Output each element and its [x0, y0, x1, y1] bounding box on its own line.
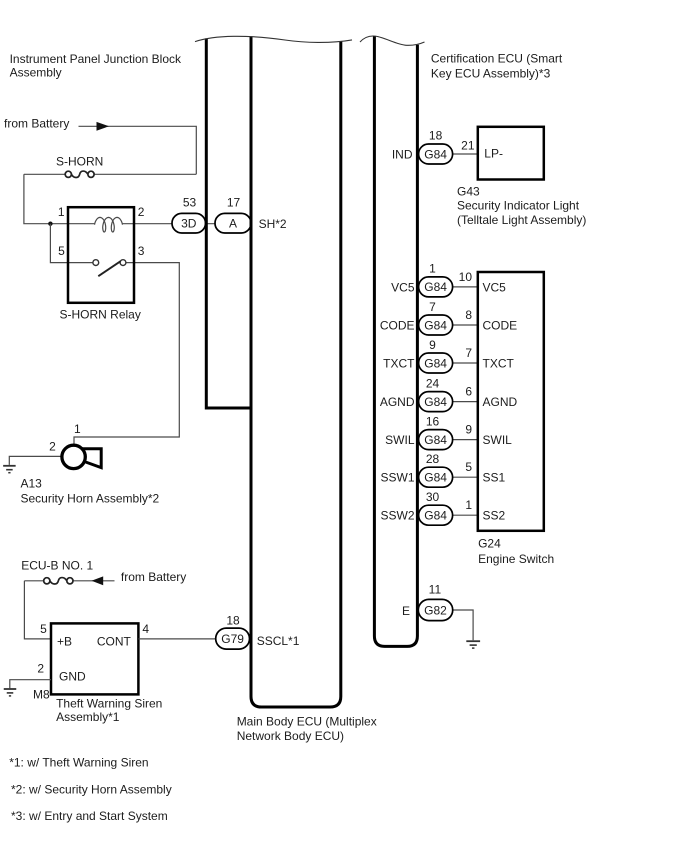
svg-text:*2: w/ Security Horn Assembly: *2: w/ Security Horn Assembly [11, 782, 172, 796]
wire relay pin 3 to horn pin 1 [74, 263, 179, 444]
svg-text:SS1: SS1 [483, 471, 506, 485]
engine switch box G24 [478, 272, 544, 531]
svg-text:SWIL: SWIL [385, 433, 415, 447]
relay S-HORN Relay box [68, 207, 134, 303]
ground M8 [4, 688, 17, 690]
svg-text:7: 7 [429, 300, 436, 314]
wire CONT to G79 [138, 638, 215, 640]
wire junction to relay pin 5 [50, 224, 93, 263]
ground A13 [3, 465, 16, 467]
horn trumpet [84, 449, 102, 468]
svg-text:M8: M8 [33, 688, 50, 702]
Certification ECU outline [374, 36, 417, 646]
svg-text:G82: G82 [424, 603, 447, 617]
svg-text:9: 9 [465, 423, 472, 437]
svg-text:3: 3 [138, 244, 145, 258]
svg-text:CONT: CONT [97, 635, 132, 649]
svg-text:*3: w/ Entry and Start System: *3: w/ Entry and Start System [11, 809, 168, 823]
svg-text:7: 7 [465, 346, 472, 360]
svg-text:G84: G84 [424, 471, 447, 485]
svg-text:G84: G84 [424, 433, 447, 447]
svg-text:S-HORN Relay: S-HORN Relay [60, 307, 141, 321]
svg-text:G84: G84 [424, 356, 447, 370]
wire battery to fuse [73, 580, 115, 582]
horn circle A13 [62, 445, 85, 468]
svg-text:AGND: AGND [483, 395, 518, 409]
wire horn pin 2 to ground [9, 456, 60, 465]
svg-text:CODE: CODE [483, 319, 518, 333]
svg-text:28: 28 [426, 452, 440, 466]
arrow from battery [97, 122, 110, 131]
svg-text:CODE: CODE [380, 319, 415, 333]
svg-text:24: 24 [426, 376, 440, 390]
svg-text:G84: G84 [424, 509, 447, 523]
svg-text:VC5: VC5 [483, 280, 507, 294]
svg-text:ECU-B NO. 1: ECU-B NO. 1 [21, 559, 93, 573]
svg-text:A: A [229, 217, 237, 231]
svg-text:+B: +B [57, 635, 72, 649]
connector G84 pin 18 IND [419, 144, 453, 164]
fuse S-HORN wire [24, 173, 65, 175]
arrow from battery (bottom) [92, 576, 104, 585]
wire G82 to ground [453, 610, 473, 640]
svg-text:8: 8 [465, 308, 472, 322]
svg-text:E: E [402, 604, 410, 618]
svg-text:1: 1 [465, 498, 472, 512]
svg-text:GND: GND [59, 670, 86, 684]
svg-text:SWIL: SWIL [483, 433, 513, 447]
svg-text:Engine Switch: Engine Switch [478, 552, 554, 566]
svg-text:Theft Warning Siren: Theft Warning Siren [56, 697, 162, 711]
wire fuse to siren +B [24, 581, 51, 639]
indicator light box G43 [478, 127, 544, 180]
Main Body ECU wavy top [195, 36, 352, 42]
svg-text:6: 6 [465, 385, 472, 399]
svg-text:from Battery: from Battery [4, 116, 69, 130]
Certification ECU wavy top [360, 36, 425, 45]
svg-text:Main Body ECU (Multiplex: Main Body ECU (Multiplex [237, 714, 377, 728]
svg-text:11: 11 [429, 583, 442, 597]
svg-text:1: 1 [429, 262, 436, 276]
svg-text:Assembly: Assembly [10, 65, 62, 79]
theft warning siren box M8 [51, 623, 138, 694]
svg-text:SSW2: SSW2 [380, 509, 414, 523]
svg-text:18: 18 [429, 128, 443, 142]
svg-text:G84: G84 [424, 280, 447, 294]
wire GND to ground [10, 680, 51, 689]
svg-text:53: 53 [183, 195, 197, 209]
svg-text:G84: G84 [424, 147, 447, 161]
svg-text:30: 30 [426, 490, 440, 504]
Main Body ECU outline [251, 36, 341, 707]
svg-text:2: 2 [37, 661, 44, 675]
junction dot [48, 222, 52, 226]
svg-text:10: 10 [459, 270, 473, 284]
svg-text:SH*2: SH*2 [259, 217, 287, 231]
relay switch contacts [93, 260, 99, 266]
svg-text:2: 2 [49, 439, 56, 453]
svg-text:Key ECU Assembly)*3: Key ECU Assembly)*3 [431, 67, 551, 81]
svg-text:Assembly*1: Assembly*1 [56, 710, 120, 724]
svg-text:G84: G84 [424, 318, 447, 332]
relay switch blade [98, 261, 120, 276]
svg-text:TXCT: TXCT [483, 357, 515, 371]
svg-text:G43: G43 [457, 185, 480, 199]
svg-text:TXCT: TXCT [383, 357, 415, 371]
svg-text:LP-: LP- [484, 147, 503, 161]
Instrument Panel Junction Block outline [206, 38, 251, 408]
svg-text:1: 1 [58, 205, 65, 219]
svg-text:Certification ECU (Smart: Certification ECU (Smart [431, 51, 563, 65]
svg-text:5: 5 [40, 622, 47, 636]
svg-text:1: 1 [74, 422, 81, 436]
svg-text:2: 2 [138, 205, 145, 219]
svg-text:G24: G24 [478, 537, 501, 551]
svg-text:SS2: SS2 [483, 509, 506, 523]
wire fuse to relay pin 1 [24, 174, 95, 223]
svg-text:(Telltale Light Assembly): (Telltale Light Assembly) [457, 213, 586, 227]
svg-text:SSW1: SSW1 [380, 471, 414, 485]
svg-text:Security Horn Assembly*2: Security Horn Assembly*2 [21, 492, 160, 506]
svg-text:S-HORN: S-HORN [56, 155, 103, 169]
svg-text:Network Body ECU): Network Body ECU) [237, 729, 344, 743]
svg-text:Security Indicator Light: Security Indicator Light [457, 198, 580, 212]
svg-text:G79: G79 [221, 632, 244, 646]
svg-text:AGND: AGND [380, 395, 415, 409]
connector G82 pin 11 [418, 599, 452, 620]
svg-text:21: 21 [461, 139, 475, 153]
wire [79, 126, 197, 174]
fuse S-HORN [71, 171, 88, 177]
svg-text:Instrument Panel Junction Bloc: Instrument Panel Junction Block [10, 52, 182, 66]
svg-text:from Battery: from Battery [121, 570, 186, 584]
svg-text:VC5: VC5 [391, 280, 415, 294]
svg-text:5: 5 [58, 244, 65, 258]
ground (G82) [466, 640, 480, 642]
svg-text:4: 4 [142, 622, 149, 636]
svg-text:17: 17 [227, 195, 241, 209]
svg-text:SSCL*1: SSCL*1 [257, 634, 300, 648]
fuse ECU-B NO.1 [24, 580, 43, 582]
svg-text:*1: w/ Theft Warning Siren: *1: w/ Theft Warning Siren [9, 755, 148, 769]
svg-text:3D: 3D [181, 217, 197, 231]
svg-text:A13: A13 [21, 477, 43, 491]
relay coil [95, 217, 123, 232]
svg-text:5: 5 [465, 460, 472, 474]
svg-text:G84: G84 [424, 395, 447, 409]
svg-text:9: 9 [429, 338, 436, 352]
svg-text:IND: IND [392, 148, 413, 162]
svg-text:16: 16 [426, 414, 440, 428]
svg-text:18: 18 [226, 613, 240, 627]
